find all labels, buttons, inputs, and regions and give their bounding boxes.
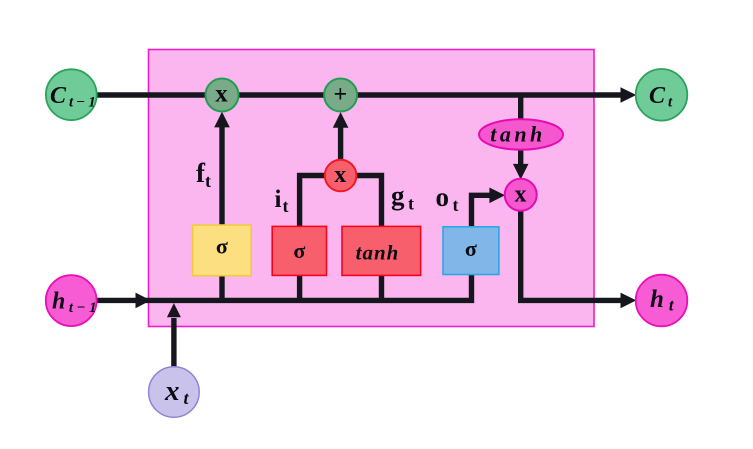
node circle C_{t-1} (green, left) bbox=[46, 69, 97, 120]
wire: input-gate branch up from bus through red sigma box, elbow into red x node bbox=[300, 176, 326, 301]
node: green add circle on C line bbox=[324, 79, 357, 112]
tanh ellipse (pink) bbox=[479, 119, 563, 149]
arrowhead into h_t bbox=[621, 293, 637, 309]
output gate sigma box (blue) bbox=[443, 227, 499, 275]
node circle h_{t-1} (pink, left) bbox=[46, 275, 97, 326]
wire: top cell-state line C bbox=[96, 92, 622, 97]
svg-text:σ: σ bbox=[465, 236, 477, 261]
svg-text:tanh: tanh bbox=[356, 241, 400, 265]
node circle h_t (pink, right) bbox=[636, 275, 688, 327]
wire: tanh ellipse down to pink x node with arrowhead bbox=[518, 148, 523, 166]
svg-text:x: x bbox=[515, 182, 527, 208]
wire: x_t input up into gates bus with arrowhead bbox=[171, 318, 176, 368]
node circle x_t (lavender, bottom) bbox=[149, 367, 200, 418]
forget gate sigma box (yellow) bbox=[193, 225, 252, 276]
svg-text:x: x bbox=[334, 162, 346, 188]
wire: red x node output up into + node with arrowhead bbox=[338, 127, 343, 161]
LSTM cell body rectangle bbox=[149, 50, 595, 327]
svg-text:tanh: tanh bbox=[490, 122, 546, 147]
wire: g-gate branch up from bus through tanh box, elbow into red x node bbox=[356, 176, 382, 301]
svg-text:+: + bbox=[333, 82, 347, 108]
svg-text:σ: σ bbox=[293, 238, 305, 263]
svg-text:σ: σ bbox=[216, 234, 228, 259]
input gate sigma box (red) bbox=[272, 226, 326, 275]
node: red multiply circle bbox=[325, 160, 357, 192]
arrowhead at cell boundary on h input bbox=[136, 293, 151, 309]
node circle C_t (green, right) bbox=[636, 69, 688, 121]
wire: branch down from C line to tanh ellipse bbox=[518, 95, 523, 121]
g gate tanh box (red) bbox=[342, 226, 421, 275]
wire: forget-gate branch up through yellow box to green x node bbox=[219, 127, 224, 300]
svg-text:x: x bbox=[215, 81, 228, 108]
arrowhead into C_t bbox=[621, 87, 637, 103]
node: pink multiply circle bbox=[505, 179, 537, 211]
wire: h_{t-1} input line and gates bus, corner up into o-gate box bbox=[96, 273, 472, 300]
wire: output of pink x node down and right to h_t bbox=[521, 209, 621, 300]
wire: o-gate elbow up from blue box, right into pink x node with arrowhead bbox=[472, 195, 492, 228]
node: green multiply circle on C line bbox=[206, 79, 239, 112]
